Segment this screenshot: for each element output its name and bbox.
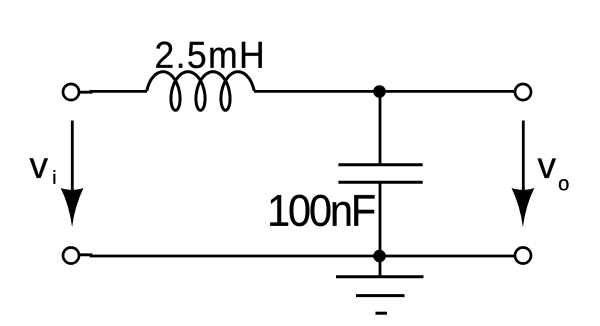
node top junction: [373, 85, 386, 98]
label 2.5mH: [156, 42, 261, 69]
wire top-right: [254, 90, 514, 93]
ground bar 1: [336, 275, 424, 278]
wire bottom: [80, 255, 514, 256]
inductor L1 2.5mH: [147, 72, 254, 111]
ground bar 2: [356, 294, 405, 297]
terminal left-bottom: [63, 248, 79, 264]
wire top-left: [80, 90, 147, 94]
arrow vi shaft: [71, 121, 74, 191]
capacitor C1 lead bottom: [379, 182, 382, 257]
label 100nF: [270, 195, 374, 227]
arrow vo head: [512, 188, 535, 227]
capacitor C1 plates: [338, 165, 422, 183]
terminal right-bottom: [515, 248, 531, 264]
label vo: [538, 159, 556, 179]
arrow vo shaft: [522, 121, 525, 191]
label vi: [30, 158, 48, 178]
terminal left-top: [63, 84, 79, 100]
capacitor C1 lead top: [379, 92, 382, 167]
ground bar 3: [376, 312, 388, 315]
node bottom junction: [373, 250, 386, 263]
ground lead: [379, 256, 382, 277]
arrow vi head: [61, 188, 84, 227]
terminal right-top: [515, 84, 531, 100]
